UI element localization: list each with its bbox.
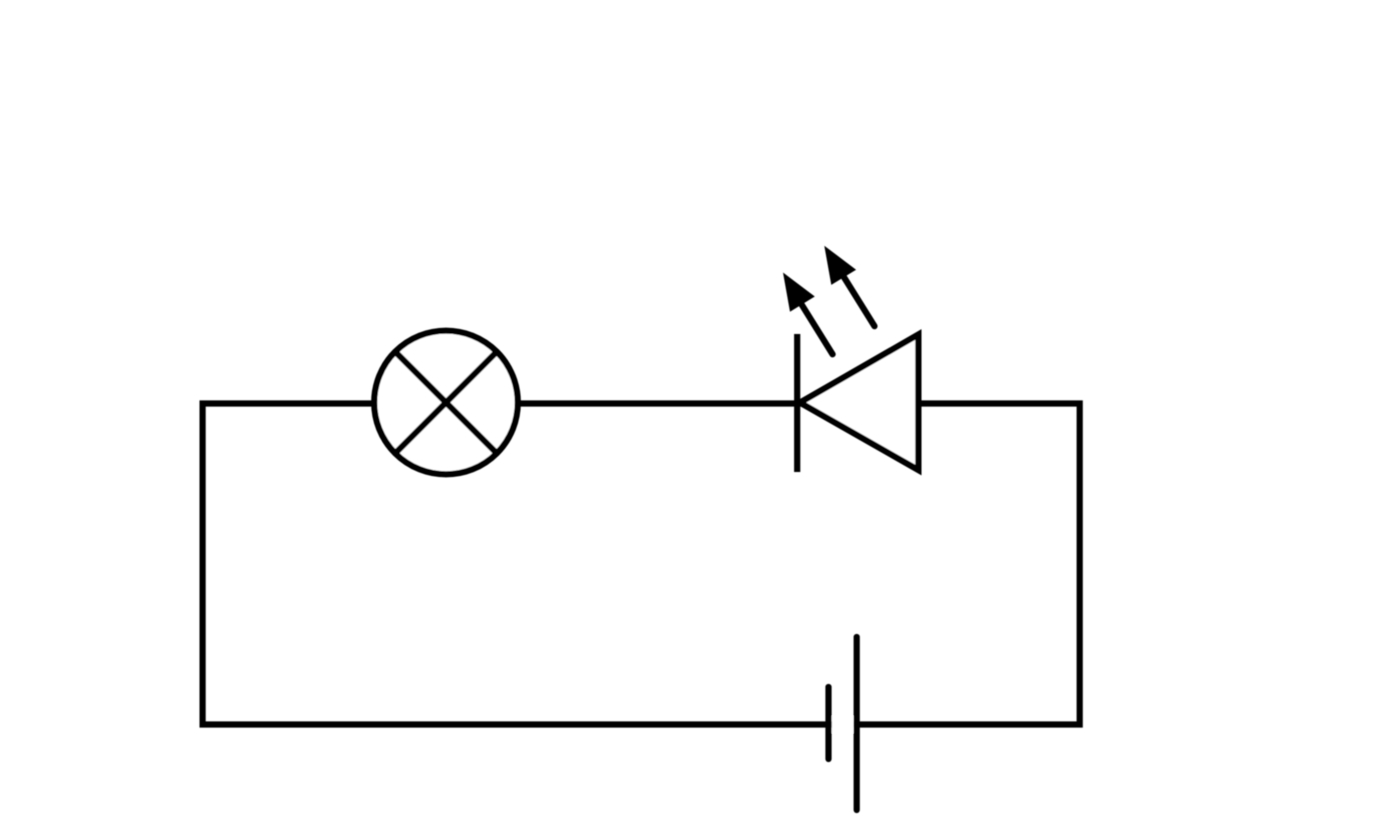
LED D1 emission arrow 2 (upper-right) bbox=[824, 246, 874, 327]
battery gap (white break in bottom rail between plates) bbox=[832, 716, 854, 733]
battery B1 positive plate (long) bbox=[854, 637, 860, 810]
battery B1 negative plate (short) bbox=[825, 687, 831, 759]
wire loop (top rail, right rail, bottom rail, left rail) bbox=[203, 404, 1080, 725]
LED D1 triangle (anode, pointing left) bbox=[800, 335, 918, 471]
LED D1 emission arrow 1 (lower-left) bbox=[783, 273, 833, 355]
LED D1 cathode bar bbox=[794, 334, 800, 472]
lamp X1 (circle with cross) bbox=[374, 331, 518, 475]
